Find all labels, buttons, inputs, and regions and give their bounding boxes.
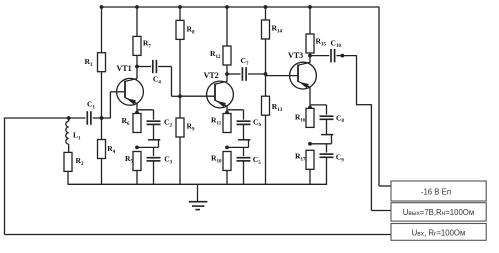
node: rail junction at R12 — [225, 5, 229, 9]
capacitor C3 — [147, 157, 161, 159]
wire: R2 to ground rail — [67, 171, 69, 184]
wire: C9 top lead — [326, 144, 328, 153]
wire: supply drop from rail right end — [378, 7, 380, 187]
wire: VT2 emitter lead — [226, 106, 228, 114]
transistor VT3 — [290, 62, 317, 89]
capacitor C1 — [86, 111, 88, 125]
ground — [197, 184, 199, 201]
node: input/L1 junction — [67, 116, 71, 120]
wire: C3 top lead — [153, 147, 155, 156]
wire: C1 to base node — [93, 117, 111, 119]
wire: VT1 base riser — [109, 92, 111, 119]
wire: R9 to ground rail — [179, 137, 181, 184]
wire: R8 to VT2 base node — [179, 39, 181, 96]
wire: R13 to ground rail — [265, 115, 267, 184]
node: VT3 emitter junction — [308, 106, 312, 110]
wire: R17 to ground rail — [309, 169, 311, 184]
wire: R3 bottom to base node — [101, 72, 103, 119]
capacitor C4 — [137, 66, 151, 68]
resistor R3 — [98, 53, 106, 72]
inductor L1 — [68, 118, 70, 121]
resistor R5 — [133, 152, 141, 171]
node: VT2 emitter junction — [225, 111, 229, 115]
svg-text:-16 В Еп: -16 В Еп — [421, 188, 451, 197]
svg-text:Uвых=7В,Rн=100Ом: Uвых=7В,Rн=100Ом — [403, 208, 475, 217]
node: VT3 base node — [264, 72, 268, 76]
resistor R14 — [262, 20, 270, 39]
wire: R12 to VT2 collector — [226, 65, 228, 82]
resistor R6 — [133, 114, 141, 133]
transistor VT2 — [207, 81, 234, 108]
transistor VT1 — [117, 78, 144, 105]
wire: R15 to VT3 collector — [309, 53, 311, 63]
capacitor C8 — [320, 115, 334, 117]
node: VT3 emitter divider junction — [308, 142, 312, 146]
resistor R4 — [98, 140, 106, 159]
wire: supply into -16V box — [379, 185, 391, 187]
wire: R8 top lead from rail — [179, 7, 181, 20]
node: VT1 collector / C4 junction — [135, 65, 139, 69]
wire: C6 bottom lead — [243, 125, 245, 140]
wire: ground rail (bottom bus) — [68, 183, 328, 185]
node: rail junction at R14 — [264, 5, 268, 9]
wire: output jog right — [356, 104, 371, 106]
wire: VT3 emitter lead — [309, 87, 311, 108]
wire: output into Uout box — [371, 210, 391, 212]
resistor R7 — [133, 36, 141, 55]
wire: VT3 base node to R13 — [265, 74, 267, 97]
wire: R7 top lead from rail — [136, 7, 138, 36]
resistor R15 — [306, 34, 314, 53]
wire: C3 to ground rail — [153, 161, 155, 184]
node: VT1 emitter junction — [135, 111, 139, 115]
wire: top supply rail (-16V bus) — [102, 6, 380, 8]
wire: input left drop — [4, 118, 6, 235]
svg-text:VT2: VT2 — [204, 71, 219, 80]
wire: R7 to VT1 collector — [136, 55, 138, 78]
wire: input bottom line to Uin box — [5, 234, 392, 236]
node: VT2 base node — [178, 94, 182, 98]
resistor R9 — [176, 118, 184, 137]
wire: C5 top lead — [243, 147, 245, 156]
node: output junction after C10 — [341, 54, 345, 58]
wire: C8 bottom lead — [326, 119, 328, 134]
capacitor C2 — [147, 120, 161, 122]
capacitor C10 — [310, 55, 329, 57]
wire: output down to Uout box — [370, 104, 372, 210]
wire: emitter branch to C2 — [137, 109, 154, 111]
wire: R4 bottom to ground rail — [101, 159, 103, 185]
wire: C2 bottom lead — [153, 125, 155, 140]
wire: C5 to ground rail — [243, 161, 245, 184]
wire: VT1 emitter lead — [136, 103, 138, 113]
wire: R12 top lead from rail — [226, 7, 228, 46]
node: VT2 emitter divider junction — [225, 146, 229, 150]
node: VT2 collector / C7 junction — [225, 72, 229, 76]
node: rail corner at R3 — [100, 5, 104, 9]
node: VT1 emitter divider junction — [135, 146, 139, 150]
svg-text:VT1: VT1 — [117, 64, 132, 73]
capacitor C5 — [237, 157, 251, 159]
resistor R2 — [64, 152, 72, 171]
wire: output drop — [356, 55, 358, 105]
wire: C4 jog down to VT2 base node — [171, 67, 173, 97]
resistor R12 — [223, 46, 231, 65]
node: VT1 base bias junction — [100, 116, 104, 120]
wire: emitter branch to C8 — [310, 104, 327, 106]
resistor R17 — [306, 150, 314, 169]
resistor R16 — [306, 108, 314, 127]
node: rail junction at R8 — [178, 5, 182, 9]
node: VT3 collector / C10 junction — [308, 54, 312, 58]
wire: L1 to R2 — [68, 144, 70, 152]
wire: VT2 base node to R9 — [179, 96, 181, 118]
wire: R14 top lead from rail — [265, 7, 267, 20]
node: rail junction at R7 — [135, 5, 139, 9]
svg-text:Uвх, Rг=100Ом: Uвх, Rг=100Ом — [412, 229, 466, 238]
box: input spec Uvh — [391, 224, 486, 241]
resistor R13 — [262, 96, 270, 115]
wire: R5 to ground rail — [136, 171, 138, 185]
wire: R15 top lead from rail — [309, 7, 311, 34]
resistor R11 — [223, 114, 231, 133]
wire: emitter branch to C6 — [227, 109, 244, 111]
wire: R3 top lead from rail — [101, 7, 103, 53]
capacitor C6 — [237, 120, 251, 122]
wire: junction to C8/C9 column — [310, 143, 332, 145]
capacitor C9 — [320, 153, 334, 155]
wire: input line from left terminal — [5, 117, 86, 119]
wire: VT3 base lead — [266, 75, 299, 77]
box: output spec Uvyh — [391, 203, 486, 221]
wire: R10 to ground rail — [226, 171, 228, 185]
wire: R14 to VT3 base node — [265, 39, 267, 75]
wire: C9 to ground rail — [326, 157, 328, 184]
wire: base node to R4 — [101, 117, 103, 139]
wire: junction to C2/C3 column — [137, 146, 159, 148]
resistor R10 — [223, 152, 231, 171]
box: supply label -16 V Ep — [391, 181, 486, 201]
svg-text:VT3: VT3 — [288, 51, 303, 60]
wire: VT2 base lead — [180, 95, 215, 97]
wire: junction to C5/C6 column — [227, 146, 249, 148]
resistor R8 — [176, 20, 184, 39]
node: rail junction at R15 — [308, 5, 312, 9]
capacitor C7 — [227, 73, 241, 75]
